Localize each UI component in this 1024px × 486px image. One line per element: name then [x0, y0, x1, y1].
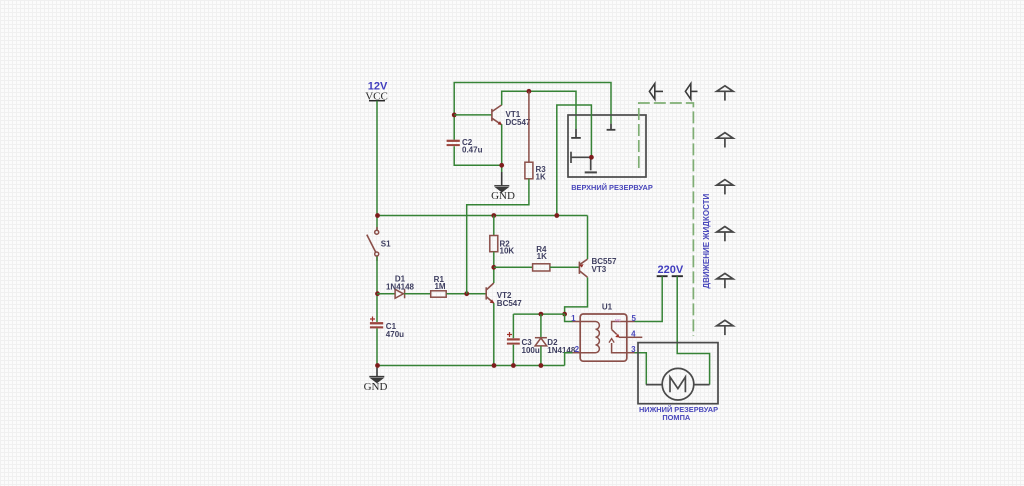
- arrow up 5: [717, 273, 733, 288]
- wire VCC vertical: [376, 101, 378, 216]
- svg-text:GND: GND: [491, 190, 515, 202]
- wire S1 top: [376, 216, 378, 230]
- svg-text:ДВИЖЕНИЕ ЖИДКОСТИ: ДВИЖЕНИЕ ЖИДКОСТИ: [702, 193, 711, 288]
- node rail middle electrode: [554, 213, 559, 218]
- svg-text:ВЕРХНИЙ РЕЗЕРВУАР: ВЕРХНИЙ РЕЗЕРВУАР: [571, 183, 653, 192]
- transistor VT3 BC557: [579, 259, 587, 277]
- svg-text:1K: 1K: [536, 172, 546, 181]
- arrow up 4: [717, 227, 733, 242]
- arrow left 1: [649, 84, 663, 100]
- relay pin3 internal: [612, 343, 627, 353]
- motor M pump: [646, 368, 710, 400]
- arrow up 6: [717, 320, 733, 335]
- capacitor C2: [447, 138, 483, 154]
- svg-text:S1: S1: [381, 240, 391, 249]
- node VT1 emitter/C2: [499, 163, 504, 168]
- wire relay pin1: [565, 314, 573, 321]
- node 220V terminals: [657, 264, 684, 276]
- arrow up 3: [717, 180, 733, 195]
- lower reservoir box: [638, 343, 718, 404]
- relay contact common: [612, 322, 627, 330]
- transistor VT1 DC547: [492, 105, 502, 125]
- svg-text:4: 4: [631, 330, 636, 339]
- wire to D1: [377, 293, 395, 295]
- svg-text:U1: U1: [602, 303, 613, 312]
- relay blade: [612, 329, 617, 334]
- wire to VT1 base: [454, 114, 492, 116]
- relay U1: [571, 303, 642, 362]
- node C3 bottom: [511, 363, 516, 368]
- wire VT3 collector to relay: [565, 277, 588, 314]
- wire relay top net: [513, 313, 564, 315]
- ground GND2: [491, 172, 515, 202]
- wire C2 bottom: [454, 146, 502, 165]
- wire 220V right to motor: [677, 276, 709, 384]
- wire VT1 emitter: [501, 124, 503, 172]
- wire C3 bottom: [512, 345, 514, 366]
- wire R3 to VT2 base node: [467, 179, 529, 294]
- wire R2 to node: [493, 252, 495, 268]
- svg-text:VT3: VT3: [592, 265, 607, 274]
- electrode E1: [571, 129, 581, 138]
- node junction R3 feed: [464, 291, 469, 296]
- wire relay pin2: [565, 353, 573, 366]
- svg-text:1K: 1K: [537, 252, 547, 261]
- svg-text:GND: GND: [364, 381, 388, 393]
- arrow left 2: [685, 84, 697, 100]
- wire C1 to bottom rail: [376, 328, 378, 368]
- wire D2 bottom: [540, 346, 542, 366]
- node D2 top: [539, 312, 544, 317]
- svg-text:10K: 10K: [500, 247, 515, 256]
- wire R1 to VT2 base: [447, 293, 487, 295]
- node C2/base: [452, 113, 457, 118]
- resistor R1 1M: [431, 291, 447, 297]
- wire VT1 top-left corner net: [454, 83, 611, 140]
- wire VT1 collector: [502, 91, 576, 129]
- wire node to R4: [494, 266, 533, 268]
- svg-text:0.47u: 0.47u: [462, 145, 483, 154]
- resistor R2 10K: [490, 236, 498, 252]
- switch S1: [367, 227, 379, 261]
- relay pin stubs: [573, 322, 643, 353]
- resistor R4 1K: [533, 264, 550, 271]
- transistor VT2 BC547: [486, 283, 494, 303]
- ground GND1: [364, 368, 388, 393]
- electrode E2: [607, 124, 616, 130]
- wire VT2 emitter: [493, 303, 495, 365]
- node R2 top: [491, 213, 496, 218]
- resistor R3 lead: [528, 91, 530, 162]
- wire rail to R2: [493, 216, 495, 236]
- node R3 top: [527, 89, 532, 94]
- capacitor C1: [370, 317, 404, 340]
- node junction S1/D1: [375, 291, 380, 296]
- node D2 bottom: [539, 363, 544, 368]
- arrow up 1: [717, 86, 733, 101]
- node E3 junction: [589, 155, 594, 160]
- svg-text:2: 2: [575, 345, 580, 354]
- svg-text:DC547: DC547: [506, 118, 531, 127]
- wire S1 to C1: [376, 257, 378, 323]
- wire D2 top: [540, 314, 542, 338]
- node VCC 12V: [365, 81, 388, 103]
- capacitor C3: [507, 332, 540, 355]
- svg-text:1N4148: 1N4148: [547, 346, 576, 355]
- svg-text:1N4148: 1N4148: [386, 282, 415, 291]
- svg-text:220V: 220V: [658, 264, 684, 276]
- node bottom rail GND: [375, 363, 380, 368]
- svg-text:1M: 1M: [434, 282, 445, 291]
- wire D1 to R1: [404, 293, 430, 295]
- relay pin4 internal: [619, 336, 627, 338]
- diode D2 1N4148: [535, 338, 547, 346]
- node relay top net: [562, 312, 567, 317]
- node VCC rail junction: [375, 213, 380, 218]
- wire relay pin3 to pump: [635, 353, 647, 385]
- svg-text:ПОМПА: ПОМПА: [662, 413, 691, 422]
- wire VCC rail: [377, 215, 588, 217]
- wire dashed liquid path: [639, 103, 694, 336]
- wire R4 to VT3 base: [550, 266, 580, 268]
- wire net to C3: [512, 314, 514, 338]
- electrode E3 sensor: [571, 152, 597, 173]
- resistor R3 1K: [525, 162, 533, 179]
- upper reservoir box: [568, 115, 646, 177]
- node R2/VT2/R4: [491, 265, 496, 270]
- svg-text:NC: NC: [615, 318, 621, 323]
- diode D1 1N4148: [395, 289, 405, 298]
- wire bottom rail: [377, 365, 565, 367]
- wire VT3 emitter to rail: [587, 216, 589, 260]
- wire VCC to middle electrode: [557, 105, 592, 216]
- svg-text:100u: 100u: [522, 346, 540, 355]
- arrow up 2: [717, 133, 733, 148]
- svg-text:470u: 470u: [386, 330, 404, 339]
- svg-text:BC547: BC547: [497, 299, 522, 308]
- node VT2 emitter on rail: [492, 363, 497, 368]
- relay coil: [580, 322, 599, 353]
- wire VT2 collector: [493, 267, 495, 283]
- wire 220V left to pin5: [635, 276, 663, 321]
